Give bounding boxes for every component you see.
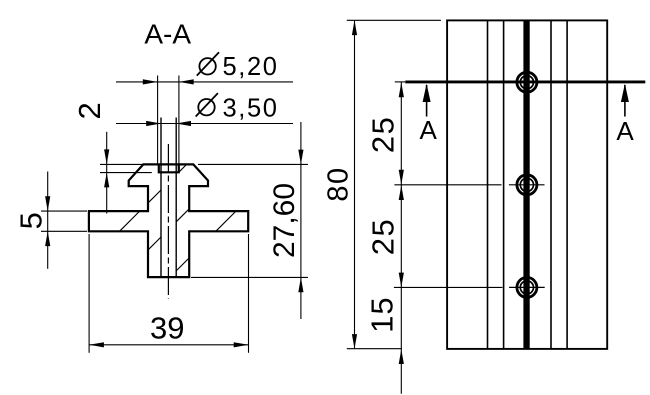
dimension 27,60 — [191, 122, 308, 319]
hatch line c351 neck — [148, 190, 161, 203]
svg-text:2: 2 — [72, 102, 107, 119]
svg-text:80: 80 — [323, 166, 355, 201]
section arrow A left — [420, 84, 438, 145]
dimension chain 25/25/15 — [365, 82, 503, 394]
profile groove line 2 — [503, 20, 505, 349]
hatch line c398 stem left — [148, 237, 161, 250]
svg-text:27,60: 27,60 — [268, 183, 301, 258]
dimension 5 — [14, 172, 88, 269]
profile groove line 4 — [566, 20, 568, 349]
dimension 39 — [89, 234, 248, 353]
centerline of section part — [167, 144, 169, 299]
hatch line c398 neck right — [176, 209, 189, 222]
hole Ø3.50 right line — [175, 118, 177, 278]
hole circle middle — [509, 175, 545, 195]
profile groove line 3 — [550, 20, 552, 349]
hole circle top — [517, 72, 537, 92]
profile groove line 1 — [487, 20, 489, 349]
counterbore Ø5.20 walls — [159, 165, 179, 173]
front view rectangle — [447, 20, 607, 349]
svg-text:5: 5 — [14, 212, 49, 229]
section arrow A right — [616, 84, 634, 146]
section cutting line A-A — [395, 81, 406, 83]
hatch line c351 head — [179, 165, 187, 173]
hatch line c447 stem right — [176, 258, 189, 271]
dimension 2 — [72, 102, 152, 213]
svg-text:25: 25 — [366, 116, 401, 153]
svg-text:25: 25 — [366, 218, 401, 255]
svg-text:A-A: A-A — [144, 19, 191, 50]
hole Ø3.50 left line — [160, 118, 162, 278]
svg-text:3,50: 3,50 — [223, 94, 279, 122]
dimension 80 — [323, 20, 441, 349]
svg-text:15: 15 — [365, 296, 400, 332]
central slot thick band — [523, 20, 529, 349]
hatch line c351 arm — [120, 211, 140, 231]
dimension Ø5,20 — [116, 52, 293, 164]
svg-text:A: A — [616, 116, 634, 146]
hatch line c447 arm right — [216, 211, 236, 231]
svg-text:5,20: 5,20 — [223, 53, 279, 81]
hole circle bottom — [509, 277, 545, 297]
part outline (section view) — [89, 164, 248, 277]
dimension Ø3,50 — [116, 93, 293, 126]
svg-text:39: 39 — [150, 311, 184, 346]
svg-text:A: A — [420, 115, 438, 145]
